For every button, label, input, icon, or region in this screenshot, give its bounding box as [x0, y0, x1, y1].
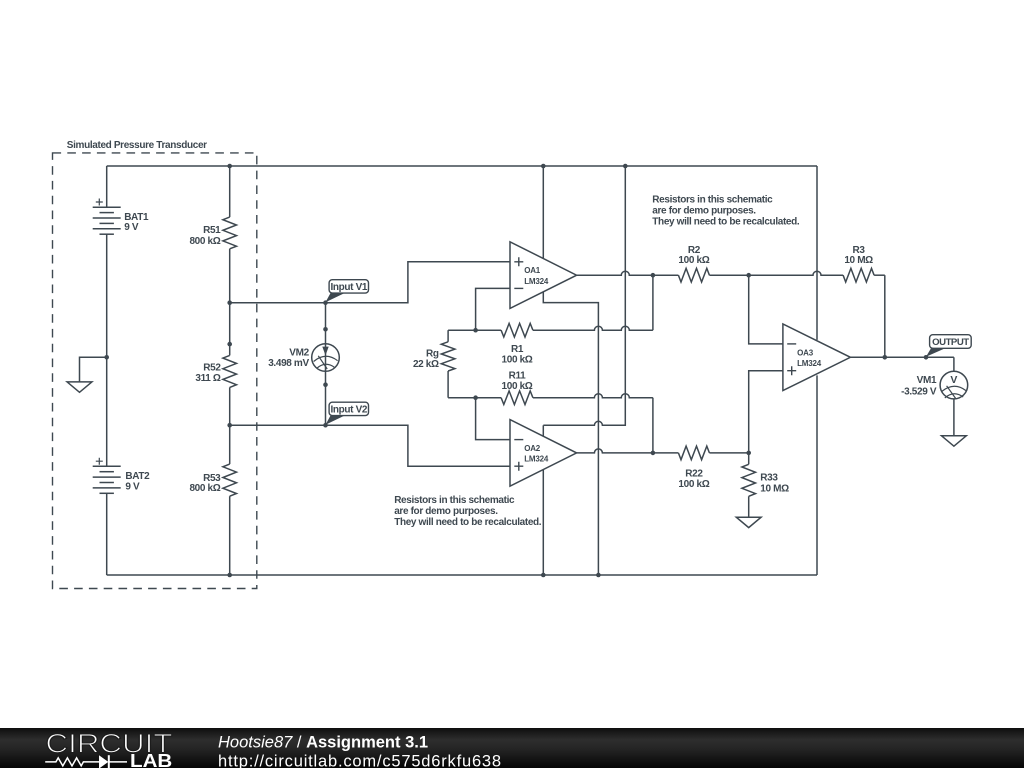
svg-text:22 kΩ: 22 kΩ [413, 359, 439, 370]
wire Input V2 net [230, 425, 510, 466]
label Rg [426, 348, 439, 359]
label R3 [853, 245, 866, 256]
wire R11 to OA2 output [652, 398, 654, 453]
resistor Rg [441, 330, 455, 398]
resistor R53 [223, 425, 237, 575]
svg-text:LM324: LM324 [524, 455, 549, 464]
wire Input V1 net [230, 262, 510, 303]
svg-text:800 kΩ: 800 kΩ [189, 236, 220, 247]
svg-text:Simulated Pressure Transducer: Simulated Pressure Transducer [67, 140, 207, 151]
svg-text:Resistors in this schematic: Resistors in this schematic [394, 495, 515, 506]
footer bar [0, 728, 1024, 768]
BAT2 plus sign [96, 458, 103, 465]
junction bottom rail at OA1 V- branch [596, 573, 601, 578]
junction OA2 output feedback [651, 451, 656, 456]
ground VM1 [942, 436, 967, 446]
svg-text:Resistors in this schematic: Resistors in this schematic [652, 195, 773, 206]
wire R1 to OA1 output [652, 275, 654, 330]
svg-text:They will need to be recalcula: They will need to be recalculated. [394, 517, 542, 528]
junction Input V1 at VM2 [323, 300, 328, 305]
wire OA1 V+ pin [542, 166, 544, 258]
wire R2 to OA3 inverting [749, 275, 783, 344]
svg-text:100 kΩ: 100 kΩ [502, 354, 533, 365]
wire OA2 V- pin [542, 470, 544, 575]
svg-text:9 V: 9 V [124, 222, 139, 233]
svg-text:OUTPUT: OUTPUT [932, 337, 969, 348]
svg-text:100 kΩ: 100 kΩ [502, 381, 533, 392]
svg-text:-3.529 V: -3.529 V [901, 386, 937, 397]
junction R2 R3 node [746, 273, 751, 278]
svg-text:3.498 mV: 3.498 mV [268, 358, 309, 369]
junction R52 bottom Input V2 [227, 423, 232, 428]
svg-text:100 kΩ: 100 kΩ [678, 479, 709, 490]
dashed enclosure box Simulated Pressure Transducer [53, 153, 257, 589]
wire Rg bottom to R11 row [448, 397, 476, 399]
ground left [67, 382, 92, 392]
wire BAT1 top lead [106, 166, 108, 207]
junction top rail at R51 [227, 164, 232, 169]
label Rg value [413, 359, 439, 370]
junction VM2 bottom terminal [323, 382, 328, 387]
node flag Input V2 [326, 402, 369, 425]
svg-text:10 MΩ: 10 MΩ [844, 255, 873, 266]
CircuitLab logo wordmark LAB [130, 751, 172, 768]
wire VM2 through [325, 303, 327, 426]
label VM2 [289, 347, 309, 358]
label VM1 value [901, 386, 937, 397]
voltmeter VM2 [312, 344, 340, 372]
svg-text:They will need to be recalcula: They will need to be recalculated. [652, 217, 800, 228]
resistor R51 [223, 166, 237, 303]
voltmeter VM1 [940, 371, 968, 399]
wire VM1 to ground [953, 399, 955, 436]
BAT1 plus sign [96, 199, 103, 206]
label BAT2 value 9 V [125, 481, 140, 492]
svg-text:Input V1: Input V1 [330, 282, 367, 293]
label R1 [511, 344, 524, 355]
wire R3 to output [884, 275, 886, 357]
label R1 value [502, 354, 533, 365]
svg-text:R11: R11 [509, 370, 527, 381]
label R3 value [844, 255, 873, 266]
svg-text:R33: R33 [760, 472, 778, 483]
svg-text:LM324: LM324 [524, 277, 549, 286]
label R33 [760, 472, 778, 483]
wire ground branch [80, 357, 107, 382]
resistor R3 [749, 268, 885, 282]
label R11 [509, 370, 527, 381]
svg-text:Rg: Rg [426, 348, 439, 359]
note text top [652, 195, 800, 228]
label R53 [203, 473, 221, 484]
svg-text:VM1: VM1 [917, 375, 937, 386]
junction top rail at OA2 V+ branch [623, 164, 628, 169]
resistor R2 [653, 268, 749, 282]
junction R22 R33 node [746, 451, 751, 456]
wire output down to VM1 [953, 357, 955, 371]
label BAT2 [125, 471, 150, 482]
junction top rail at OA1 V+ [541, 164, 546, 169]
svg-text:R22: R22 [685, 469, 703, 480]
svg-text:R52: R52 [203, 362, 221, 373]
battery BAT1 [93, 207, 121, 234]
label VM1 [917, 375, 937, 386]
junction VM2 top terminal [323, 327, 328, 332]
resistor R11 [476, 391, 653, 405]
wire OA3 output [850, 356, 954, 358]
svg-text:OA2: OA2 [524, 444, 541, 453]
label R2 [688, 245, 701, 256]
svg-text:LM324: LM324 [797, 359, 822, 368]
svg-text:R1: R1 [511, 344, 524, 355]
footer url [218, 753, 502, 768]
wire bottom -9V rail [107, 574, 817, 576]
label R53 value [189, 483, 220, 494]
label R11 value [502, 381, 533, 392]
svg-text:10 MΩ: 10 MΩ [760, 484, 789, 495]
junction output at flag [924, 355, 929, 360]
label R33 value [760, 484, 789, 495]
wire OA2 output [577, 449, 653, 453]
svg-text:100 kΩ: 100 kΩ [678, 255, 709, 266]
resistor R22 [653, 446, 749, 460]
svg-text:LAB: LAB [130, 751, 172, 768]
wire OA2 inverting input [476, 398, 510, 440]
svg-text:VM2: VM2 [289, 347, 309, 358]
resistor R1 [476, 323, 653, 337]
wire R22 to OA3 non-inverting [749, 371, 783, 453]
wire OA1 inverting input [476, 288, 510, 330]
svg-text:OA1: OA1 [524, 266, 541, 275]
wire OA3 V- supply riser [816, 375, 818, 575]
label R52 value [195, 373, 221, 384]
wire BAT2 top lead [106, 357, 108, 466]
junction R52 top lead [227, 342, 232, 347]
node flag Input V1 [326, 280, 369, 303]
CircuitLab logo resistor-diode emblem [45, 755, 127, 768]
svg-text:V: V [950, 374, 957, 386]
junction bottom rail at R53 [227, 573, 232, 578]
junction Input V2 at VM2 [323, 423, 328, 428]
label BAT1 [124, 212, 149, 223]
svg-text:are for demo purposes.: are for demo purposes. [394, 506, 498, 517]
svg-text:800 kΩ: 800 kΩ [189, 483, 220, 494]
label R52 [203, 362, 221, 373]
CircuitLab logo wordmark CIRCUIT [46, 729, 173, 759]
label R22 value [678, 479, 709, 490]
wire top +9V rail [107, 165, 817, 167]
junction OA1 output feedback [651, 273, 656, 278]
svg-text:R51: R51 [203, 225, 221, 236]
wire BAT2 bottom lead [106, 493, 108, 575]
label R22 [685, 469, 703, 480]
node flag OUTPUT [926, 335, 971, 357]
note text bottom [394, 495, 542, 528]
label R2 value [678, 255, 709, 266]
wire OA2 V+ jog [543, 166, 625, 425]
resistor R52 [223, 303, 237, 426]
label Simulated Pressure Transducer [67, 140, 207, 151]
junction OA2 inv node [473, 395, 478, 400]
resistor R33 [742, 453, 756, 517]
wire OA2 V+ pin stub [542, 425, 544, 436]
wire OA3 V+ supply drop [816, 166, 818, 340]
wire OA1 output [577, 271, 653, 275]
op-amp OA3 [783, 324, 851, 391]
wire BAT1 to ground junction [106, 234, 108, 357]
junction bottom rail at OA2 V- [541, 573, 546, 578]
svg-text:9 V: 9 V [125, 481, 140, 492]
svg-text:Hootsie87 / Assignment 3.1: Hootsie87 / Assignment 3.1 [218, 734, 428, 752]
battery BAT2 [93, 466, 121, 493]
svg-text:OA3: OA3 [797, 348, 814, 357]
footer title Hootsie87 / Assignment 3.1 [218, 734, 428, 752]
op-amp OA1 [510, 242, 577, 309]
ground R33 [736, 517, 761, 527]
svg-text:311 Ω: 311 Ω [195, 373, 221, 384]
svg-text:http://circuitlab.com/c575d6rk: http://circuitlab.com/c575d6rkfu638 [218, 753, 502, 768]
wire OA1 V- jog [543, 292, 598, 575]
svg-text:are for demo purposes.: are for demo purposes. [652, 206, 756, 217]
junction OA1 inv node [473, 328, 478, 333]
svg-text:Input V2: Input V2 [330, 405, 367, 416]
op-amp OA2 [510, 420, 577, 487]
label VM2 value [268, 358, 309, 369]
label BAT1 value 9 V [124, 222, 139, 233]
junction battery midpoint [104, 355, 109, 360]
label R51 value [189, 236, 220, 247]
wire Rg top to R1 row [448, 329, 476, 331]
junction R3 at output [883, 355, 888, 360]
label R51 [203, 225, 221, 236]
junction R51 bottom Input V1 [227, 300, 232, 305]
